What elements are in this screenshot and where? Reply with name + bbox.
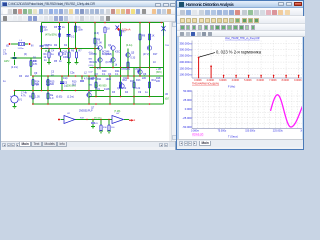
svg-text:3.000K: 3.000K [219, 79, 227, 82]
svg-text:47K: 47K [33, 63, 38, 66]
svg-text:1.05: 1.05 [35, 96, 40, 99]
svg-text:(0.65): (0.65) [56, 96, 62, 99]
svg-text:IN: IN [31, 45, 34, 48]
svg-text:-25.000: -25.000 [182, 116, 192, 120]
svg-text:R5: R5 [54, 60, 58, 63]
svg-text:(45.1): (45.1) [91, 77, 97, 80]
svg-text:1K: 1K [107, 28, 110, 31]
svg-text:KSC: KSC [115, 51, 120, 54]
svg-text:(200.0m): (200.0m) [66, 85, 76, 88]
svg-text:100n: 100n [63, 56, 69, 59]
svg-text:(2.1m): (2.1m) [11, 66, 18, 69]
svg-text:1943: 1943 [106, 78, 112, 81]
svg-text:0.22: 0.22 [136, 87, 141, 90]
svg-text:Q9: Q9 [34, 72, 38, 75]
svg-text:(0V): (0V) [165, 99, 169, 101]
svg-text:(7.1B): (7.1B) [106, 53, 113, 56]
svg-text:1.0K: 1.0K [97, 41, 102, 44]
svg-text:U3: U3 [95, 123, 98, 125]
svg-text:(0): (0) [6, 45, 9, 48]
svg-text:D3: D3 [112, 91, 116, 94]
svg-text:0.33: 0.33 [131, 57, 136, 60]
svg-text:C2a: C2a [70, 72, 75, 75]
svg-text:4.7k: 4.7k [21, 95, 26, 98]
svg-text:0.47: 0.47 [89, 72, 94, 74]
svg-text:Q5: Q5 [131, 52, 135, 55]
svg-text:6.000K: 6.000K [257, 79, 265, 82]
svg-text:R2: R2 [54, 44, 58, 47]
svg-text:5.000K: 5.000K [244, 79, 252, 82]
svg-text:27p: 27p [3, 52, 8, 55]
svg-text:V1: V1 [19, 99, 23, 102]
svg-text:1K: 1K [152, 35, 155, 38]
svg-text:0.2: 0.2 [71, 36, 75, 39]
svg-text:(470u/35V): (470u/35V) [45, 34, 57, 37]
svg-text:D5: D5 [54, 26, 58, 29]
svg-text:9.000K: 9.000K [294, 79, 301, 82]
svg-text:U4: U4 [116, 113, 120, 115]
svg-text:R7: R7 [79, 50, 83, 53]
svg-text:100.000m: 100.000m [180, 73, 193, 77]
svg-text:C9: C9 [138, 91, 142, 94]
svg-text:100: 100 [111, 127, 115, 129]
svg-text:U2: U2 [67, 113, 71, 115]
svg-text:BD139: BD139 [90, 61, 98, 64]
svg-text:Q11: Q11 [123, 77, 128, 80]
svg-text:1u: 1u [3, 80, 6, 83]
svg-text:0.22: 0.22 [122, 87, 127, 90]
svg-text:350.000m: 350.000m [180, 41, 193, 45]
svg-text:R13: R13 [136, 79, 141, 82]
svg-text:R3: R3 [19, 75, 23, 78]
svg-text:1N: 1N [97, 88, 100, 91]
svg-text:R16: R16 [103, 127, 108, 129]
svg-text:(47.2): (47.2) [143, 53, 149, 56]
svg-text:220: 220 [142, 77, 147, 80]
svg-text:V(Out) (V): V(Out) (V) [192, 133, 204, 136]
svg-text:(0.7B): (0.7B) [106, 61, 113, 64]
svg-text:Q4: Q4 [108, 73, 112, 76]
svg-text:F (Hz): F (Hz) [228, 85, 235, 89]
svg-text:D4: D4 [125, 91, 129, 94]
svg-text:T (Secs): T (Secs) [228, 135, 238, 139]
svg-text:-50.000: -50.000 [182, 125, 192, 129]
svg-text:8.000K: 8.000K [282, 79, 290, 82]
svg-text:150.000m: 150.000m [180, 66, 193, 70]
svg-text:(1.2m): (1.2m) [67, 96, 74, 99]
svg-text:75.000u: 75.000u [218, 130, 227, 133]
svg-text:(50V): (50V) [156, 72, 162, 74]
svg-text:100n: 100n [78, 29, 84, 32]
svg-text:2k2: 2k2 [25, 75, 30, 78]
svg-text:(0.4u): (0.4u) [126, 44, 132, 47]
svg-text:47k: 47k [89, 91, 93, 93]
svg-text:1/2p: 1/2p [63, 77, 68, 80]
svg-text:7.000K: 7.000K [269, 79, 277, 82]
svg-text:R6: R6 [71, 50, 75, 53]
svg-text:(47u): (47u) [89, 65, 94, 67]
svg-text:225.000u: 225.000u [273, 130, 284, 133]
svg-text:+: + [10, 94, 12, 98]
svg-text:47K: 47K [33, 60, 38, 63]
svg-text:2N5551: 2N5551 [44, 44, 53, 47]
svg-text:0.000: 0.000 [185, 107, 192, 111]
svg-text:Q3: Q3 [95, 73, 99, 76]
svg-text:D2: D2 [64, 44, 68, 47]
svg-text:L1: L1 [20, 40, 23, 42]
svg-text:L2: L2 [84, 72, 87, 75]
svg-text:300.000u: 300.000u [300, 130, 301, 133]
svg-text:600: 600 [50, 83, 55, 86]
svg-text:KT850: KT850 [90, 53, 98, 56]
svg-text:4.000K: 4.000K [232, 79, 240, 82]
svg-text:1n: 1n [44, 59, 47, 62]
svg-text:250.000m: 250.000m [180, 54, 193, 58]
svg-text:U6: U6 [165, 94, 169, 96]
svg-text:1N4: 1N4 [89, 85, 94, 87]
svg-text:THD(HARM(V(Out)))(%): THD(HARM(V(Out)))(%) [192, 83, 219, 86]
svg-text:25.000: 25.000 [183, 98, 192, 102]
svg-text:4148: 4148 [104, 88, 110, 91]
svg-text:Vout_7W-8R_THD_vs_Freq.CIR: Vout_7W-8R_THD_vs_Freq.CIR [225, 37, 260, 40]
svg-text:(0): (0) [24, 53, 27, 56]
svg-text:220: 220 [156, 80, 161, 83]
svg-text:200.000m: 200.000m [180, 60, 193, 64]
svg-text:R17: R17 [153, 53, 158, 56]
svg-text:TLE: TLE [165, 45, 169, 47]
svg-text:300.000m: 300.000m [180, 48, 193, 52]
svg-text:1u: 1u [145, 91, 148, 94]
svg-text:0, 023 % 2-я гармоника: 0, 023 % 2-я гармоника [216, 49, 262, 54]
svg-text:R15: R15 [130, 80, 135, 83]
svg-text:D1 4S-500: D1 4S-500 [95, 85, 107, 88]
svg-text:+ V8: + V8 [156, 69, 162, 71]
svg-text:10u: 10u [44, 29, 49, 32]
svg-text:R9: R9 [142, 35, 146, 38]
svg-text:2u: 2u [62, 26, 65, 29]
svg-text:1u: 1u [51, 53, 54, 56]
svg-text:R11: R11 [97, 78, 102, 81]
svg-text:150.000u: 150.000u [245, 130, 256, 133]
svg-text:KT8101: KT8101 [122, 68, 131, 71]
svg-text:47u: 47u [46, 84, 51, 87]
svg-text:50.000: 50.000 [183, 89, 192, 93]
svg-text:10: 10 [153, 61, 156, 64]
svg-text:(7.18): (7.18) [114, 110, 120, 113]
svg-text:(85.500): (85.500) [94, 117, 102, 119]
svg-text:600: 600 [35, 83, 40, 86]
svg-text:1k: 1k [115, 64, 118, 67]
svg-text:2N5551/PLP: 2N5551/PLP [79, 110, 93, 113]
svg-text:1k: 1k [59, 60, 62, 63]
svg-text:1.87m: 1.87m [18, 48, 24, 50]
svg-text:(0.6): (0.6) [94, 32, 99, 35]
svg-text:1kHz: 1kHz [4, 60, 10, 63]
svg-text:PLP: PLP [45, 50, 50, 53]
svg-text:1.0: 1.0 [50, 97, 54, 100]
